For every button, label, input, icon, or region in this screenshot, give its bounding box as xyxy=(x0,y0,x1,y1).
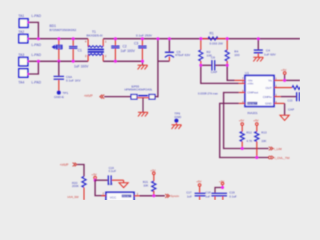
svg-text:+HVP: +HVP xyxy=(60,163,70,167)
wire vertical node x158 xyxy=(157,39,159,97)
chassis ground under TP6 xyxy=(172,125,182,129)
svg-text:10K: 10K xyxy=(143,183,148,187)
svg-text:R1: R1 xyxy=(210,31,214,35)
svg-text:+5V: +5V xyxy=(253,119,258,123)
wire GND to ground xyxy=(274,103,285,115)
svg-text:C1: C1 xyxy=(78,49,82,53)
svg-text:TA1: TA1 xyxy=(18,14,24,18)
capacitor C19 xyxy=(223,190,237,200)
svg-text:TA3: TA3 xyxy=(18,53,24,57)
svg-text:C13: C13 xyxy=(288,99,293,103)
resistor R1 xyxy=(201,31,228,45)
svg-text:GND: GND xyxy=(174,115,182,119)
pin stub -Vin xyxy=(235,79,246,81)
capacitor C3 xyxy=(134,33,153,61)
svg-text:0.1uF: 0.1uF xyxy=(109,169,117,173)
wire +5V to U2 VCC xyxy=(95,180,106,195)
svg-text:L-PAD: L-PAD xyxy=(32,53,42,57)
node junctions secondary xyxy=(114,37,260,67)
capacitor C18 xyxy=(205,179,227,200)
capacitor C17 xyxy=(186,179,205,200)
svg-text:C6: C6 xyxy=(211,55,215,59)
svg-text:Syncin: Syncin xyxy=(171,194,180,198)
wire TA4 to node xyxy=(28,61,39,74)
svg-text:R12: R12 xyxy=(246,131,252,135)
port +HVP lower xyxy=(60,163,77,167)
port +HVP (spark gap input) xyxy=(84,94,104,99)
pin stub U2 left xyxy=(102,195,107,197)
pin stub U2 right / wire to port xyxy=(134,195,165,197)
port I_OVL_TM xyxy=(269,156,290,160)
wire node201 to +Vin xyxy=(201,65,239,83)
resistor R13 xyxy=(253,119,267,158)
port I_LIM xyxy=(269,147,282,151)
wire primary bottom rail xyxy=(38,60,88,62)
svg-text:1uF: 1uF xyxy=(205,194,210,198)
wire +HVP to spark gap xyxy=(104,96,131,98)
junction R12 bottom xyxy=(241,147,244,150)
node junctions primary xyxy=(27,21,75,75)
wire TA1 to node xyxy=(28,22,38,38)
svg-text:100: 100 xyxy=(234,53,239,57)
capacitor C4 xyxy=(254,39,277,58)
svg-text:Vs: Vs xyxy=(268,79,272,83)
svg-text:0.1uF 1KV: 0.1uF 1KV xyxy=(66,79,82,83)
capacitor C13 (cut off right) xyxy=(288,92,301,111)
svg-text:U1: U1 xyxy=(245,71,249,75)
svg-text:0.033 2W: 0.033 2W xyxy=(210,42,223,46)
svg-text:+5V: +5V xyxy=(196,179,201,183)
svg-text:1uF 100V: 1uF 100V xyxy=(74,64,89,68)
power +5V node C16 xyxy=(92,173,97,182)
resistor R2 xyxy=(199,39,212,66)
svg-text:B72580T3500K062: B72580T3500K062 xyxy=(50,28,77,32)
svg-text:C2: C2 xyxy=(123,44,127,48)
wire TA2 to rail xyxy=(28,38,39,40)
svg-text:L-PAD: L-PAD xyxy=(32,14,42,18)
testpoint TP1 xyxy=(54,80,68,99)
capacitor C16 xyxy=(95,166,124,185)
svg-text:+5V: +5V xyxy=(281,68,286,72)
svg-text:CMPin: CMPin xyxy=(263,95,272,99)
power +5V at Vs xyxy=(274,68,300,82)
resistor R20 xyxy=(68,165,87,201)
ground triangle at U1 xyxy=(280,115,289,120)
capacitor C5 electrolytic xyxy=(158,39,191,62)
svg-text:470uF 63V: 470uF 63V xyxy=(175,53,191,57)
svg-text:1uF 63V: 1uF 63V xyxy=(264,53,277,57)
svg-text:I_OVL_TM: I_OVL_TM xyxy=(274,156,290,160)
svg-text:L-PAD: L-PAD xyxy=(32,81,42,85)
wire node227 to -Vin xyxy=(227,65,234,80)
wire secondary bottom rail xyxy=(103,60,142,62)
svg-text:+5V: +5V xyxy=(239,119,244,123)
svg-text:+5V: +5V xyxy=(92,173,97,177)
svg-text:OUT: OUT xyxy=(265,86,272,90)
svg-text:200K: 200K xyxy=(72,184,79,188)
svg-text:U2: U2 xyxy=(109,182,113,186)
svg-text:RESET: RESET xyxy=(122,195,131,198)
ground triangle at C16 xyxy=(119,183,128,188)
svg-text:CAP: CAP xyxy=(288,108,294,112)
resistor R21 xyxy=(143,168,156,195)
svg-text:L-PAD: L-PAD xyxy=(32,43,42,47)
capacitor C1 xyxy=(69,39,89,69)
svg-text:+Vin: +Vin xyxy=(247,82,253,86)
svg-text:HV4_SW: HV4_SW xyxy=(68,195,80,199)
svg-text:GND-E: GND-E xyxy=(54,95,64,99)
wire CMPout to I_LIM xyxy=(224,93,269,149)
svg-text:VCC: VCC xyxy=(110,196,117,200)
svg-text:10K: 10K xyxy=(261,139,266,143)
op-amp U1 INA201 xyxy=(242,71,277,115)
wire spark gap to node x158 xyxy=(155,96,159,98)
svg-text:CMPout: CMPout xyxy=(247,91,258,95)
svg-text:1uF 100V: 1uF 100V xyxy=(121,49,136,53)
svg-text:1uF: 1uF xyxy=(187,194,192,198)
resistor R12 xyxy=(239,119,253,149)
wire secondary top rail xyxy=(103,38,300,40)
varistor BD1 xyxy=(50,24,77,61)
IC U2 xyxy=(103,182,139,202)
svg-text:INA201: INA201 xyxy=(247,111,258,115)
port Syncin xyxy=(165,194,179,198)
svg-text:I_LIM: I_LIM xyxy=(274,147,282,151)
svg-text:C3: C3 xyxy=(134,42,138,46)
resistor R4 xyxy=(225,39,240,66)
testpoint TP6 xyxy=(174,111,182,125)
transformer T1 xyxy=(85,30,107,61)
pad TA3 xyxy=(18,53,41,66)
pad TA2 xyxy=(18,30,41,47)
svg-text:TA2: TA2 xyxy=(18,30,24,34)
svg-text:GND: GND xyxy=(265,102,273,106)
wire RESET to I_OVL xyxy=(220,103,269,157)
svg-text:CAP: CAP xyxy=(211,70,217,74)
chassis ground under C3 xyxy=(138,61,148,69)
svg-text:RESET: RESET xyxy=(248,102,257,105)
svg-text:+HVP: +HVP xyxy=(84,94,94,98)
junction R21 bottom xyxy=(152,194,155,197)
svg-text:0.033R 27A max: 0.033R 27A max xyxy=(198,92,219,96)
chassis ground under C4 xyxy=(253,57,263,61)
capacitor C6 xyxy=(201,55,227,74)
wire primary top rail xyxy=(38,38,88,40)
svg-text:HPM6HKC40HPOA0L: HPM6HKC40HPOA0L xyxy=(125,88,153,92)
wire CMPin to C13 xyxy=(274,96,296,98)
spark gap EP55 xyxy=(125,84,156,112)
pad TA1 xyxy=(18,14,41,27)
svg-text:TA4: TA4 xyxy=(18,81,24,85)
capacitor C2 xyxy=(111,39,135,62)
svg-text:0.1uF 250V: 0.1uF 250V xyxy=(136,33,153,37)
svg-text:0.1uF: 0.1uF xyxy=(229,194,237,198)
svg-text:4.7K: 4.7K xyxy=(246,139,252,143)
wire TA3 to rail xyxy=(28,60,39,62)
pin stub +Vin xyxy=(239,82,246,84)
resistor at OUT (cut off) xyxy=(274,86,301,90)
svg-text:R13: R13 xyxy=(261,131,267,135)
svg-text:BKXDD5-0I: BKXDD5-0I xyxy=(87,34,103,38)
capacitor C6A xyxy=(54,61,82,82)
junction R13 bottom xyxy=(255,156,258,159)
pad TA4 xyxy=(18,69,41,85)
chassis ground under EP55 xyxy=(138,112,148,116)
